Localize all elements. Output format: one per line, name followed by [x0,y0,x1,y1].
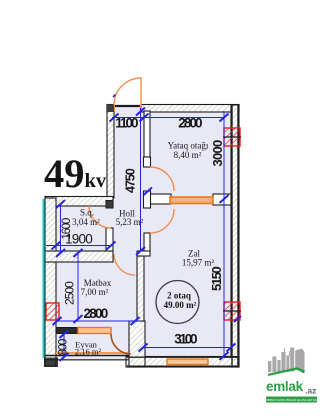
svg-text:2500: 2500 [63,281,77,305]
svg-text:8,40 m²: 8,40 m² [174,150,202,160]
svg-text:.az: .az [305,386,316,396]
svg-text:3100: 3100 [174,332,198,347]
svg-text:Yataq otağı: Yataq otağı [168,141,209,151]
svg-text:3000: 3000 [210,140,225,167]
svg-text:S.q.: S.q. [80,208,94,218]
svg-text:2 otaq: 2 otaq [167,291,191,301]
svg-text:1100: 1100 [115,116,139,131]
svg-text:2,16 m²: 2,16 m² [75,347,102,357]
svg-text:5150: 5150 [209,266,224,291]
svg-text:3,04 m²: 3,04 m² [72,217,100,227]
svg-text:emlak: emlak [266,379,304,394]
svg-text:2800: 2800 [178,116,203,131]
svg-text:AZƏRBAYCANIN ƏMLAK ELANLARI SA: AZƏRBAYCANIN ƏMLAK ELANLARI SAYTI [262,398,321,402]
svg-text:7,00 m²: 7,00 m² [81,287,109,297]
svg-text:49.00 m²: 49.00 m² [164,300,197,310]
svg-text:800: 800 [58,339,70,356]
svg-text:15,97 m²: 15,97 m² [182,258,215,268]
svg-text:2800: 2800 [84,306,109,321]
svg-text:4750: 4750 [124,168,138,193]
svg-text:5,23 m²: 5,23 m² [116,217,144,227]
